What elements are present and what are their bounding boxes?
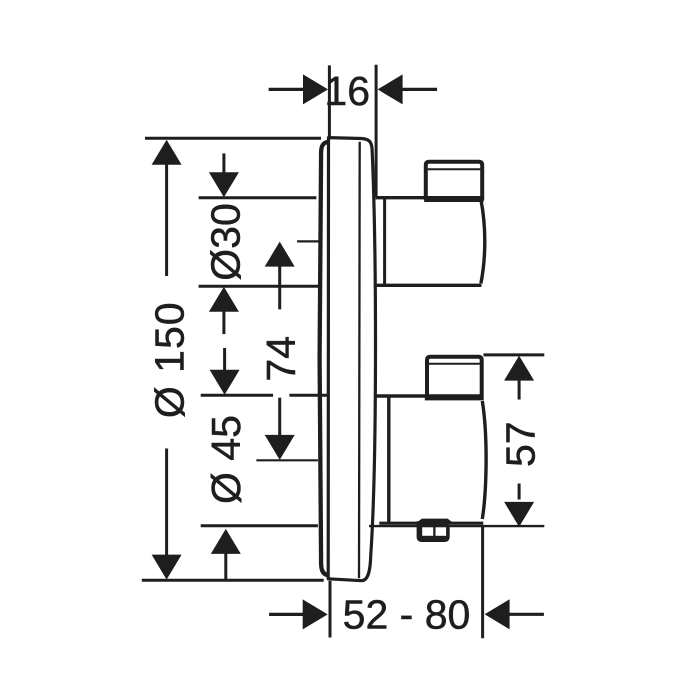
- arrowhead 16 left: [303, 74, 328, 104]
- extension line wall plane (16 right): [375, 65, 378, 197]
- dim 57 top extension: [484, 353, 545, 356]
- svg-text:Ø30: Ø30: [203, 203, 249, 281]
- front cover plate edge: [320, 142, 328, 575]
- arrowhead 74 bottom: [265, 435, 295, 460]
- arrowhead O45 top: [210, 370, 240, 395]
- sleeve bottom line continuing to right extension: [369, 525, 544, 527]
- extension line 52-80 right: [481, 526, 484, 638]
- arrowhead 74 top: [265, 242, 295, 267]
- dim 57 bottom arrow tail: [518, 484, 521, 500]
- dim 16 left tail: [269, 88, 304, 91]
- extension line sleeve bottom left: [201, 524, 318, 527]
- extension line 52-80 left: [329, 581, 332, 638]
- arrowhead O150 top: [152, 140, 182, 165]
- dim O45 bottom arrow tail: [224, 554, 227, 581]
- escutcheon disc (side view): [328, 138, 375, 581]
- dim 52-80 right tail: [509, 613, 544, 616]
- extension line upper knob bottom: [199, 285, 321, 288]
- extension line lower knob top (gap at 74 line): [201, 394, 328, 397]
- lower knob center line: [256, 459, 318, 461]
- arrowhead 52-80 right: [485, 599, 510, 629]
- upper valve cap bottom edge: [424, 199, 483, 202]
- bottom nub left window: [422, 527, 433, 536]
- dim O150 line lower: [165, 449, 168, 557]
- dim O30 top arrow tail: [222, 153, 225, 174]
- svg-text:Ø 45: Ø 45: [203, 415, 249, 504]
- svg-text:57: 57: [498, 421, 544, 467]
- svg-text:52 - 80: 52 - 80: [343, 591, 471, 637]
- lower handle body left edge: [387, 396, 390, 522]
- dim O150 line upper: [165, 164, 168, 277]
- dim 16 right tail: [402, 88, 437, 91]
- arrowhead O45 bottom: [211, 529, 241, 554]
- upper valve body left edge: [383, 198, 386, 286]
- upper valve body top edge: [376, 196, 482, 199]
- dim 57 top arrow tail: [518, 380, 521, 400]
- lower handle cap outline: [427, 357, 482, 399]
- lower handle body bottom edge with tab bump: [379, 520, 483, 523]
- bottom nub block: [417, 521, 450, 542]
- arrowhead 57 top: [504, 356, 534, 381]
- dim 74 line upper: [278, 266, 281, 310]
- extension line plate top: [145, 137, 321, 140]
- lower handle cap inner line: [429, 363, 480, 365]
- lower handle cap bottom edge: [425, 397, 484, 400]
- upper valve cap inner line: [428, 168, 481, 170]
- svg-text:Ø 150: Ø 150: [147, 301, 193, 418]
- dim O30 bottom arrow tail: [222, 312, 225, 335]
- svg-text:74: 74: [258, 336, 304, 382]
- bottom nub right window: [436, 527, 447, 536]
- arrowhead O30 bottom: [209, 287, 239, 312]
- svg-text:16: 16: [324, 68, 370, 114]
- dim 52-80 left tail: [269, 613, 303, 616]
- arrowhead 16 right: [378, 74, 403, 104]
- arrowhead O30 top: [209, 172, 239, 197]
- arrowhead 52-80 left: [303, 599, 328, 629]
- extension line plate front (16 left): [328, 65, 331, 137]
- arrowhead 57 bottom: [504, 502, 534, 527]
- upper valve cap outline: [426, 162, 482, 201]
- upper valve body bottom edge: [376, 284, 482, 287]
- dim 74 line lower: [278, 398, 281, 437]
- plate face contour line: [358, 142, 361, 578]
- lower handle body right edge: [482, 401, 486, 519]
- upper valve body right edge: [481, 200, 485, 284]
- arrowhead O150 bottom: [152, 555, 182, 580]
- lower handle body top edge: [376, 394, 483, 398]
- upper knob center line: [297, 240, 321, 242]
- extension line plate bottom: [142, 579, 324, 582]
- dim O45 top arrow tail: [223, 348, 226, 372]
- extension line upper knob top: [199, 196, 317, 199]
